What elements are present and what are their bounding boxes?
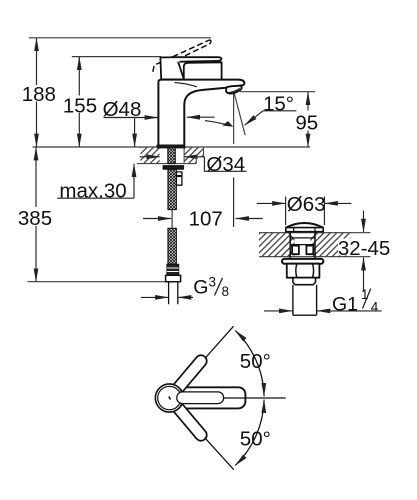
svg-text:Ø48: Ø48 — [103, 98, 142, 121]
svg-text:3: 3 — [209, 275, 217, 290]
svg-text:Ø34: Ø34 — [206, 153, 245, 176]
svg-text:107: 107 — [189, 207, 223, 230]
svg-text:Ø63: Ø63 — [287, 193, 326, 216]
svg-text:4: 4 — [371, 300, 379, 315]
svg-text:50°: 50° — [240, 350, 271, 373]
svg-text:95: 95 — [295, 111, 318, 134]
svg-text:8: 8 — [222, 284, 230, 299]
svg-text:188: 188 — [22, 83, 56, 106]
svg-text:G: G — [193, 277, 208, 299]
svg-text:1: 1 — [361, 287, 369, 302]
svg-text:max.30: max.30 — [59, 179, 126, 202]
svg-text:32-45: 32-45 — [338, 237, 390, 260]
svg-text:50°: 50° — [240, 427, 271, 450]
svg-text:15°: 15° — [263, 93, 294, 116]
svg-text:385: 385 — [18, 207, 52, 230]
svg-text:G1: G1 — [332, 294, 358, 316]
svg-text:155: 155 — [63, 95, 97, 118]
